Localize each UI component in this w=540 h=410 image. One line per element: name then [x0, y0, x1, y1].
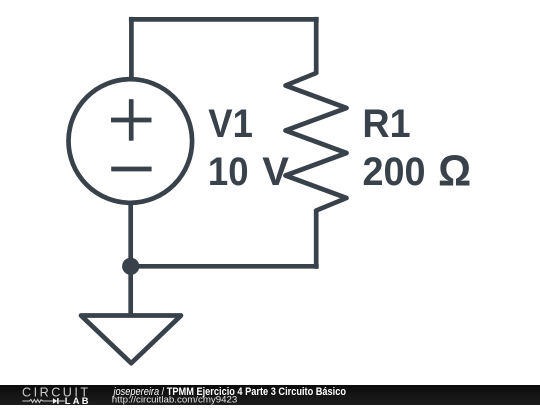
logo resistor zigzag and wire	[22, 399, 53, 402]
svg-text:Ω: Ω	[438, 148, 471, 196]
logo diode	[53, 398, 57, 404]
node: junction dot	[122, 258, 139, 275]
wire: ground stub	[128, 266, 133, 315]
logo wire after diode	[59, 400, 65, 402]
wire: vertical (V1 bottom to node)	[128, 203, 133, 266]
wire: bottom horizontal	[131, 264, 319, 269]
wire: top horizontal	[129, 17, 319, 22]
wire: left vertical (top corner to V1 top)	[129, 17, 134, 80]
svg-text:http://circuitlab.com/cmy9423: http://circuitlab.com/cmy9423	[112, 393, 238, 404]
voltage source V1: circle	[69, 79, 193, 203]
voltage source V1: plus sign	[111, 99, 152, 141]
footer bar	[0, 385, 540, 406]
wire: right vertical (top corner to R1 top)	[314, 17, 319, 74]
svg-text:R1: R1	[362, 102, 410, 146]
resistor R1: zigzag	[286, 73, 347, 211]
wire: right vertical (R1 bottom to bottom corner)	[314, 210, 319, 269]
voltage source V1: minus sign	[111, 167, 151, 172]
svg-text:200: 200	[363, 150, 426, 194]
svg-text:10: 10	[208, 150, 249, 194]
svg-text:LAB: LAB	[65, 395, 91, 405]
ground symbol	[81, 316, 181, 364]
svg-text:V1: V1	[208, 102, 253, 146]
svg-text:V: V	[262, 150, 289, 194]
